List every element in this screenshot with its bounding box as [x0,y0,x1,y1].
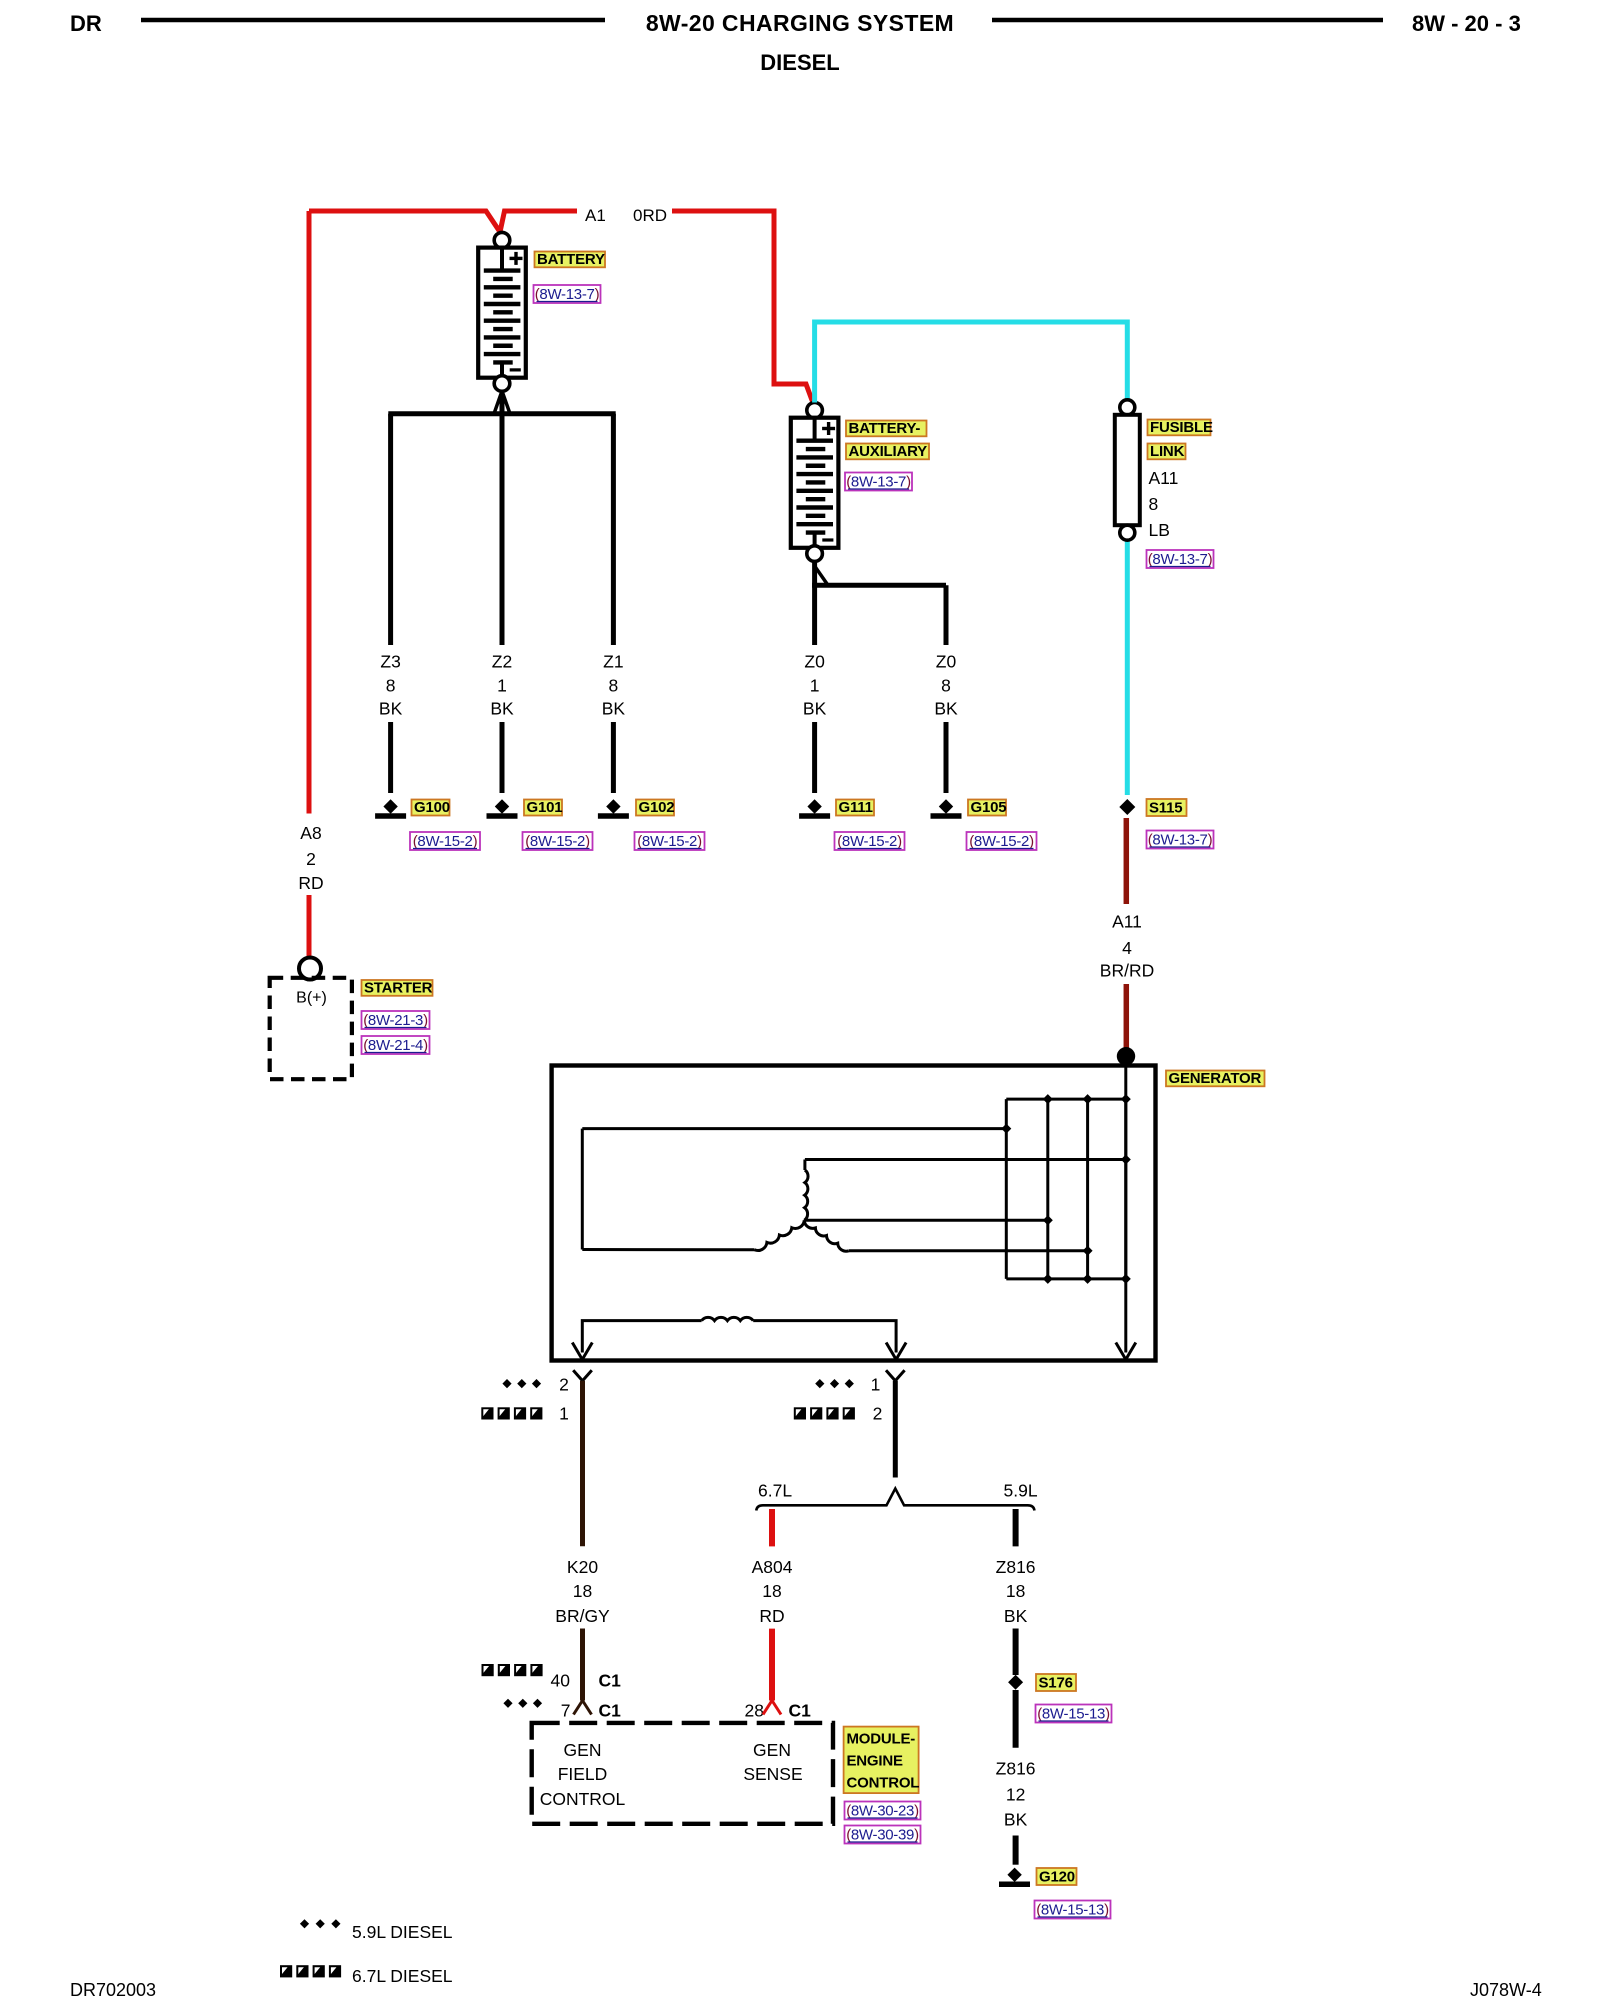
svg-text:B(+): B(+) [296,990,327,1007]
svg-text:5.9L: 5.9L [1004,1481,1038,1501]
wire A8 2 RD: down to starter [307,211,312,958]
svg-text:G101: G101 [527,799,563,816]
connector C1 pin 28 [745,1701,812,1721]
svg-text:BR/GY: BR/GY [555,1606,610,1626]
svg-text:LINK: LINK [1150,443,1185,460]
svg-text:RD: RD [759,1606,784,1626]
svg-text:40: 40 [551,1671,571,1691]
svg-text:6.7L DIESEL: 6.7L DIESEL [352,1966,453,1986]
svg-text:CONTROL: CONTROL [847,1775,920,1792]
label GENERATOR [1166,1070,1265,1087]
svg-text:6.7L: 6.7L [758,1481,792,1501]
svg-text:(8W-15-2): (8W-15-2) [413,833,478,850]
svg-text:J078W-4: J078W-4 [1470,1980,1542,2000]
svg-text:C1: C1 [599,1671,622,1691]
link 8W-30-39 [845,1826,921,1844]
label GEN SENSE [743,1740,802,1784]
svg-text:S115: S115 [1149,800,1182,817]
svg-text:S176: S176 [1039,1675,1073,1692]
svg-text:G105: G105 [971,799,1007,816]
svg-text:DR702003: DR702003 [70,1980,156,2000]
svg-text:Z816: Z816 [996,1759,1036,1779]
label Z816 18 BK [996,1557,1036,1626]
wire A1 0RD: battery feed from starter branch to batteries [309,211,813,402]
wire Z2 1 BK [490,414,514,793]
header page number [1412,11,1521,36]
link 8W-15-2 (G111) [835,832,905,850]
svg-text:G111: G111 [839,799,873,816]
svg-text:DIESEL: DIESEL [760,50,839,75]
svg-text:GENERATOR: GENERATOR [1169,1070,1262,1087]
label MODULE-ENGINE CONTROL [844,1727,920,1794]
starter box B(+) [270,978,352,1079]
svg-text:BATTERY-: BATTERY- [849,420,921,437]
svg-text:CONTROL: CONTROL [540,1789,626,1809]
svg-text:(8W-13-7): (8W-13-7) [1148,551,1213,568]
svg-text:LB: LB [1149,520,1170,540]
generator stator windings [582,1124,1131,1256]
wire Z3 8 BK [379,414,403,793]
wire Z816 12 BK to ground [1013,1690,1019,1865]
ground G102 [598,799,675,816]
svg-text:1: 1 [559,1404,569,1424]
header rule left [141,18,605,23]
svg-text:1: 1 [497,676,507,696]
label Z816 12 BK [996,1759,1036,1830]
label BATTERY-AUXILIARY [846,420,929,460]
svg-text:2: 2 [306,849,316,869]
svg-text:RD: RD [298,873,323,893]
svg-text:DR: DR [70,11,102,36]
svg-text:FIELD: FIELD [558,1764,608,1784]
svg-text:C1: C1 [599,1701,622,1721]
svg-text:BK: BK [602,699,626,719]
svg-text:7: 7 [561,1701,571,1721]
engine split brace 6.7L / 5.9L [756,1481,1038,1511]
junction node at generator B+ [1117,1047,1135,1065]
wire Z0 1 BK (aux) [803,652,827,794]
svg-text:STARTER: STARTER [364,979,433,996]
module-engine control box [532,1723,833,1824]
svg-text:C1: C1 [789,1701,812,1721]
svg-text:8: 8 [941,676,951,696]
generator field winding [582,1317,896,1352]
svg-text:G120: G120 [1039,1869,1075,1886]
link 8W-13-7 (battery-auxiliary) [845,473,912,491]
svg-text:Z3: Z3 [380,652,400,672]
link 8W-13-7 (S115) [1147,831,1214,849]
header title [646,10,954,75]
link 8W-15-13 (G120) [1035,1901,1111,1919]
svg-text:5.9L DIESEL: 5.9L DIESEL [352,1922,453,1942]
wire K20 18 BR/GY [580,1381,585,1701]
link 8W-13-7 (fusible link) [1147,550,1214,568]
svg-text:A11: A11 [1112,912,1142,932]
svg-text:A804: A804 [752,1557,793,1577]
svg-text:18: 18 [1006,1581,1025,1601]
connector C1 pin 7 (5.9L) [503,1699,621,1721]
svg-text:(8W-15-13): (8W-15-13) [1036,1902,1109,1919]
splice S115 [1119,799,1186,817]
label GEN FIELD CONTROL [540,1740,626,1809]
svg-text:(8W-21-4): (8W-21-4) [363,1037,428,1054]
svg-text:(8W-15-2): (8W-15-2) [837,833,902,850]
battery BATTERY [478,232,526,391]
svg-text:18: 18 [762,1581,781,1601]
svg-text:8: 8 [386,676,396,696]
label FUSIBLE LINK [1148,419,1213,460]
link 8W-21-3 [362,1011,430,1029]
label STARTER [362,979,433,996]
svg-text:ENGINE: ENGINE [847,1753,904,1770]
svg-text:BR/RD: BR/RD [1100,961,1154,981]
wire Z816 18 BK [1013,1509,1019,1675]
ground G101 [487,799,563,816]
svg-text:0RD: 0RD [633,206,667,225]
connector C1 pin 40 (6.7L) [482,1664,622,1691]
label A1 0RD [585,206,667,225]
wire auxiliary battery negative fork [812,562,946,646]
wire battery negative fork [388,391,615,414]
link 8W-21-4 [362,1036,430,1054]
svg-text:12: 12 [1006,1785,1025,1805]
link 8W-30-23 [845,1802,921,1820]
svg-text:(8W-13-7): (8W-13-7) [1148,832,1213,849]
wire Z1 8 BK [602,414,626,793]
svg-text:BK: BK [1004,1810,1028,1830]
splice S176 [1008,1674,1076,1692]
svg-text:(8W-13-7): (8W-13-7) [535,286,600,303]
wire generator sense to engine split [893,1381,898,1478]
svg-text:(8W-15-2): (8W-15-2) [637,833,702,850]
svg-text:(8W-15-2): (8W-15-2) [969,833,1034,850]
svg-text:BK: BK [1004,1606,1028,1626]
svg-text:(8W-21-3): (8W-21-3) [363,1012,428,1029]
wire A804 18 RD [769,1509,775,1701]
svg-text:SENSE: SENSE [743,1764,802,1784]
svg-text:BATTERY: BATTERY [537,251,605,268]
svg-text:2: 2 [873,1404,883,1424]
svg-text:Z0: Z0 [804,652,825,672]
svg-text:BK: BK [803,699,827,719]
header rule right [992,18,1383,23]
svg-text:GEN: GEN [753,1740,791,1760]
svg-text:A8: A8 [300,823,321,843]
svg-text:(8W-30-39): (8W-30-39) [846,1827,919,1844]
wire A11 4 BR/RD to generator [1124,818,1130,1050]
link 8W-15-2 (G100) [410,832,480,850]
svg-text:(8W-30-23): (8W-30-23) [846,1803,919,1820]
svg-text:G100: G100 [414,799,450,816]
generator field output arrows [572,1343,906,1360]
ground G105 [931,799,1007,816]
footer sheet codes [70,1980,1542,2000]
link 8W-15-2 (G102) [635,832,705,850]
svg-text:(8W-15-13): (8W-15-13) [1037,1706,1110,1723]
svg-text:AUXILIARY: AUXILIARY [849,443,928,460]
connector pin (sense) below generator [886,1370,905,1381]
svg-text:FUSIBLE: FUSIBLE [1150,419,1213,436]
svg-text:8W-20 CHARGING SYSTEM: 8W-20 CHARGING SYSTEM [646,10,954,36]
svg-text:MODULE-: MODULE- [847,1731,916,1748]
battery BATTERY-AUXILIARY [791,403,839,562]
label K20 18 BR/GY [555,1557,610,1626]
svg-text:K20: K20 [567,1557,598,1577]
svg-text:28: 28 [745,1701,764,1721]
svg-text:G102: G102 [639,799,675,816]
generator B+ internal wire and output arrow [1116,1056,1136,1360]
label A8 2 RD [298,823,323,893]
legend 5.9L diesel [300,1919,453,1942]
svg-text:A1: A1 [585,206,606,225]
svg-text:(8W-15-2): (8W-15-2) [525,833,590,850]
connector pin (field) below generator [573,1370,592,1381]
label BATTERY [535,251,606,268]
svg-text:GEN: GEN [564,1740,602,1760]
link 8W-15-2 (G101) [523,832,593,850]
generator rectifier bridge [1006,1094,1131,1284]
label A11 8 LB [1149,468,1179,540]
svg-text:4: 4 [1122,938,1132,958]
svg-text:1: 1 [810,676,820,696]
header left DR [70,11,102,36]
svg-text:Z816: Z816 [996,1557,1036,1577]
fusible link [1115,400,1140,540]
svg-text:BK: BK [490,699,514,719]
svg-text:Z0: Z0 [936,652,957,672]
wire Z0 8 BK (aux) [934,652,958,794]
svg-text:A11: A11 [1149,468,1179,488]
legend 6.7L diesel [280,1965,453,1986]
ground G120 [999,1868,1077,1886]
ground G100 [375,799,450,816]
wire A11 8 LB (cyan) to fusible link [815,322,1128,795]
svg-text:(8W-13-7): (8W-13-7) [846,474,911,491]
svg-text:Z1: Z1 [603,652,623,672]
link 8W-15-2 (G105) [967,832,1037,850]
svg-text:2: 2 [559,1375,569,1395]
link 8W-15-13 (S176) [1036,1705,1112,1723]
svg-text:BK: BK [934,699,958,719]
svg-text:8: 8 [609,676,619,696]
generator box [552,1066,1156,1361]
svg-text:BK: BK [379,699,403,719]
svg-text:Z2: Z2 [492,652,512,672]
label A804 18 RD [752,1557,793,1626]
svg-text:18: 18 [573,1581,592,1601]
label A11 4 BR/RD [1100,912,1154,981]
link 8W-13-7 (battery) [534,285,601,303]
pin markers: 5.9L pin 1 / 6.7L pin 2 [794,1375,883,1424]
svg-text:8: 8 [1149,494,1159,514]
pin markers: 5.9L pin 2 / 6.7L pin 1 [481,1375,569,1424]
ground G111 [799,799,874,816]
starter terminal circle [299,958,321,980]
svg-text:1: 1 [871,1375,881,1395]
svg-text:8W - 20 - 3: 8W - 20 - 3 [1412,11,1521,36]
